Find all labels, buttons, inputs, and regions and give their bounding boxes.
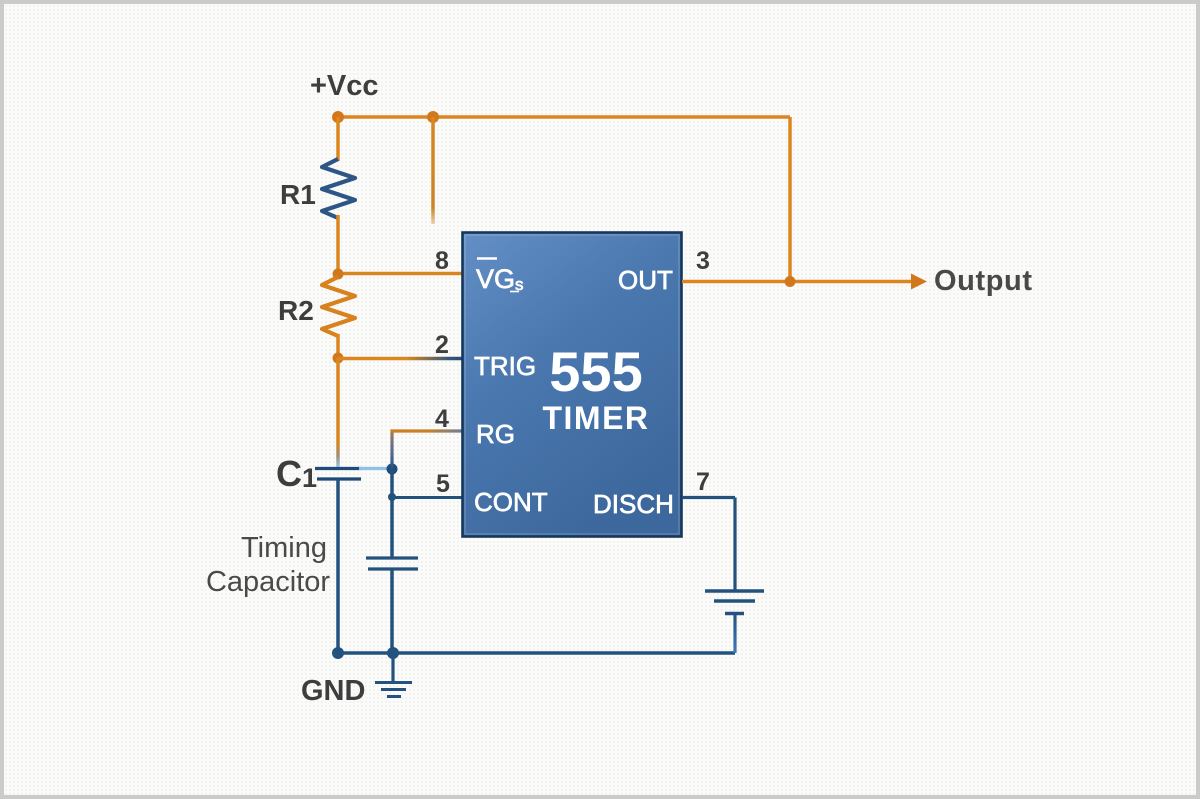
svg-text:R2: R2: [278, 295, 314, 326]
junction CONT branch: [388, 493, 396, 501]
timing capacitor bottom plate: [368, 567, 418, 570]
wire pin 2 TRIG: [338, 357, 462, 361]
resistor R1: [322, 159, 355, 218]
svg-text:TIMER: TIMER: [542, 400, 649, 436]
resistor R2: [322, 277, 355, 336]
svg-text:7: 7: [696, 468, 710, 496]
junction node A (R1/R2/pin8): [333, 269, 344, 280]
wire C1 bottom to ground rail: [336, 479, 340, 653]
svg-text:GND: GND: [301, 675, 365, 707]
wire ground symbol to ground rail: [733, 614, 736, 654]
wire node C down through CONT junction: [390, 469, 394, 558]
wire pin 8 (Vcc): [338, 272, 462, 276]
capacitor C1 top plate: [315, 467, 361, 470]
op-amp U1 555 timer body: [463, 233, 682, 537]
svg-text:555: 555: [549, 340, 642, 403]
svg-text:+Vcc: +Vcc: [310, 70, 379, 102]
svg-text:DISCH: DISCH: [593, 489, 674, 519]
wire ground rail: [338, 651, 735, 655]
wire R2 bottom to node B: [336, 334, 340, 358]
wire Vcc to R1 top: [336, 117, 340, 161]
junction node B (R2/TRIG/C1): [333, 353, 344, 364]
svg-text:RG: RG: [476, 419, 515, 449]
pin label VCC (overline): [476, 259, 524, 295]
junction ground rail / GND stub: [387, 647, 399, 659]
svg-text:Timing: Timing: [241, 532, 327, 564]
svg-text:3: 3: [696, 247, 710, 275]
wire C1 to node C (light blue): [359, 467, 389, 470]
wire R1 bottom to node A: [336, 215, 340, 274]
wire node B down to C1: [336, 358, 340, 467]
junction Vcc / R1: [332, 111, 344, 123]
capacitor C1 bottom plate: [317, 477, 361, 480]
output arrowhead: [911, 274, 927, 290]
svg-text:2: 2: [435, 331, 449, 359]
timing capacitor top plate: [366, 556, 418, 559]
wire node C up to RESET corner: [390, 430, 393, 470]
junction node C (C1/RESET/CONT branch): [387, 464, 398, 475]
wire pin 3 OUT: [682, 280, 913, 284]
junction OUT / feedback: [785, 276, 796, 287]
svg-text:C1: C1: [276, 453, 317, 494]
junction ground rail / C1: [332, 647, 344, 659]
svg-text:5: 5: [436, 470, 450, 498]
wire timing capacitor to ground rail: [390, 569, 394, 653]
wire pin 4 RESET: [391, 429, 463, 432]
svg-text:R1: R1: [280, 179, 316, 210]
svg-text:TRIG: TRIG: [474, 351, 536, 381]
wire pin 7 DISCH: [682, 496, 735, 499]
svg-text:Output: Output: [934, 265, 1033, 297]
svg-text:CONT: CONT: [474, 487, 548, 517]
junction Vcc / pin-8 branch: [427, 111, 439, 123]
wire pin 5 CONT: [392, 496, 462, 499]
svg-text:Capacitor: Capacitor: [206, 566, 330, 598]
ground GND symbol: [375, 683, 412, 697]
wire Vcc branch down toward IC top: [431, 117, 435, 224]
wire DISCH down to ground symbol: [733, 498, 736, 591]
svg-text:OUT: OUT: [618, 265, 673, 295]
wire output feedback riser: [788, 117, 792, 282]
svg-text:8: 8: [435, 247, 449, 275]
svg-text:4: 4: [435, 405, 449, 433]
wire top Vcc rail: [338, 115, 790, 119]
ground symbol (discharge): [705, 591, 764, 614]
wire GND stub: [391, 653, 394, 682]
